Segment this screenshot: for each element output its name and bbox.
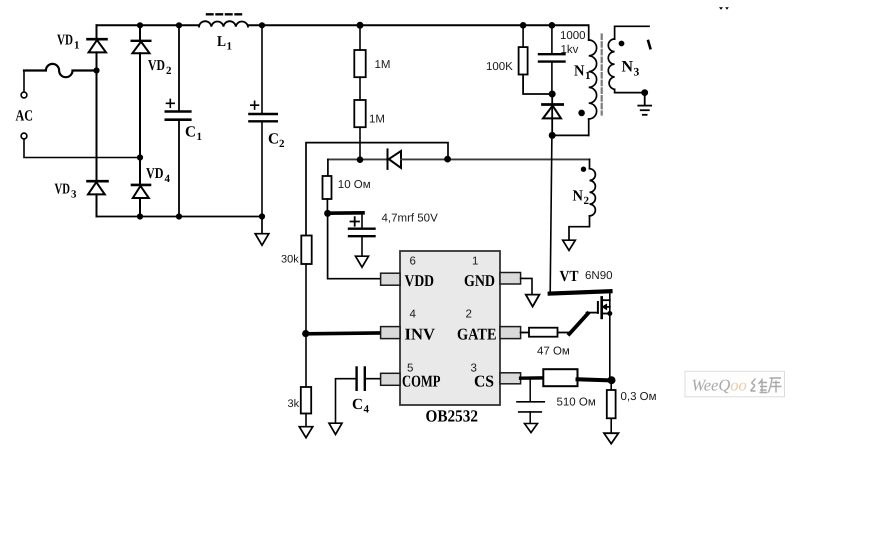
wire thick to C-4.7 (328, 211, 363, 215)
diode VD2 (132, 41, 151, 158)
svg-text:1M: 1M (369, 114, 385, 126)
resistor R-47ohm (529, 328, 558, 337)
wire VD2 branch upper (139, 25, 141, 40)
node 100K-cap (549, 91, 556, 98)
ground C-4.7 (356, 256, 369, 267)
svg-text:3: 3 (634, 67, 640, 79)
winding N3 (608, 26, 649, 92)
fuse (24, 64, 97, 77)
wire mid y159 right to N2 (401, 158, 590, 160)
wire upper-loop y142 (306, 143, 448, 234)
resistor R-510ohm (543, 369, 577, 386)
pin 5 COMP (381, 373, 400, 385)
resistor R-1M-b (354, 100, 365, 160)
svg-text:GND: GND (464, 271, 495, 290)
svg-text:N: N (622, 59, 634, 76)
wire CS thick (521, 376, 544, 380)
ground N3 earth (638, 93, 651, 115)
node top-C1 (176, 22, 182, 28)
wire mid y159 left (328, 158, 387, 160)
node N3 phase dot (619, 41, 625, 47)
node N2 phase dot (581, 167, 586, 172)
svg-text:1: 1 (585, 70, 591, 82)
svg-text:CS: CS (474, 372, 494, 391)
wire 47ohm to gate diag (558, 313, 598, 334)
node N3-ground (641, 89, 648, 96)
wire thick INV (306, 331, 381, 335)
svg-text:4,7mrf 50V: 4,7mrf 50V (382, 213, 439, 225)
node bottom-VD4 (137, 213, 143, 219)
wire AC top lead (23, 71, 25, 93)
svg-text:6N90: 6N90 (585, 270, 613, 282)
resistor R-0.3ohm (607, 380, 616, 433)
diode VD4 (132, 158, 150, 217)
svg-text:510 Ом: 510 Ом (557, 397, 596, 409)
winding N1 (589, 25, 597, 135)
node INV-divider (302, 330, 309, 337)
svg-text:GATE: GATE (457, 325, 497, 344)
pin 3 CS (500, 373, 521, 384)
node top-HVcap (549, 22, 556, 29)
wire VD1 branch upper (96, 25, 98, 39)
svg-text:1M: 1M (375, 59, 391, 71)
wire top rail right (248, 24, 589, 26)
inductor L1 (199, 21, 248, 26)
svg-text:4: 4 (410, 309, 417, 321)
svg-text:2: 2 (166, 65, 172, 77)
node B AC-VD2-VD4 (137, 154, 143, 160)
svg-text:VD: VD (148, 58, 165, 74)
op IC U1 OB2532 body (400, 251, 500, 405)
node top-VD2 (137, 22, 143, 28)
svg-text:30k: 30k (281, 254, 299, 266)
capacitor C4 (336, 368, 381, 424)
svg-text:COMP: COMP (402, 372, 441, 391)
diode VD3 (88, 181, 108, 216)
svg-text:6: 6 (410, 256, 416, 268)
resistor R-100K (519, 25, 553, 94)
capacitor C-CS (517, 378, 544, 423)
svg-text:2: 2 (466, 309, 472, 321)
svg-text:VT: VT (560, 268, 580, 285)
svg-text:N: N (573, 188, 584, 205)
svg-text:OB2532: OB2532 (426, 407, 479, 426)
pin 1 GND (500, 273, 521, 285)
svg-text:4: 4 (364, 404, 370, 416)
capacitor C-4.7mkf (349, 213, 375, 256)
diode D-clamp zener (543, 94, 563, 135)
wire V fragment (648, 41, 650, 48)
node N1 phase dot (578, 110, 585, 117)
svg-text:0,3 Ом: 0,3 Ом (621, 391, 657, 403)
svg-text:1000: 1000 (560, 30, 586, 42)
wire VDD feed (328, 213, 381, 278)
resistor R-30k (301, 236, 311, 388)
node 1M-bottom (357, 156, 364, 163)
capacitor C2 (249, 25, 276, 216)
node diode-right (444, 156, 451, 163)
node bottom-C1 (176, 213, 182, 219)
ground N2 (563, 240, 576, 250)
svg-text:L: L (217, 34, 226, 50)
svg-text:VD: VD (57, 33, 73, 49)
wire VD3 branch (96, 71, 98, 182)
diode D-feedback (388, 149, 402, 169)
wire transformer to drain (550, 135, 552, 292)
winding N2 (569, 159, 595, 240)
node source-CS (608, 376, 616, 384)
svg-text:AC: AC (16, 108, 34, 125)
pin 2 GATE (500, 327, 521, 339)
transistor Q1 6N90 mosfet (598, 293, 612, 381)
ground R-0.3 (604, 433, 618, 444)
wire GATE to 47ohm (521, 332, 529, 334)
ground C-CS (525, 424, 538, 433)
svg-text:2: 2 (279, 138, 285, 150)
ground R-3k (299, 427, 312, 438)
svg-text:100K: 100K (486, 61, 513, 73)
wire N1 bottom (552, 134, 589, 136)
resistor R-3k (301, 387, 311, 427)
core dashed (601, 35, 603, 115)
ground GND-pin (526, 295, 540, 307)
svg-text:VD: VD (55, 182, 71, 198)
node top-C2 (259, 22, 265, 28)
svg-text:1: 1 (472, 256, 478, 268)
svg-text:VD: VD (146, 166, 164, 182)
svg-text:10 Ом: 10 Ом (338, 179, 371, 191)
svg-text:N: N (574, 63, 585, 80)
svg-text:3k: 3k (288, 398, 300, 410)
marks top-right (719, 7, 729, 10)
node A fuse-VD1-VD3 (93, 67, 99, 73)
svg-text:47 Ом: 47 Ом (537, 346, 570, 358)
node top-100K (520, 22, 527, 29)
svg-text:1: 1 (74, 40, 80, 52)
svg-text:C: C (268, 131, 279, 148)
terminal AC bottom (21, 133, 27, 139)
resistor R-1M-a (354, 25, 365, 100)
node bottom-C2 (259, 213, 265, 219)
node top-1M (357, 22, 364, 29)
resistor R-10ohm (323, 159, 332, 213)
capacitor C-1000-1kv (539, 25, 565, 94)
capacitor C1 (166, 25, 191, 216)
svg-text:1: 1 (227, 41, 233, 53)
svg-text:4: 4 (165, 173, 171, 185)
svg-text:1: 1 (197, 131, 203, 143)
svg-text:C: C (185, 124, 196, 141)
ground C4 (329, 423, 342, 434)
node snubber-N1-drain (549, 132, 556, 139)
svg-text:VDD: VDD (405, 271, 435, 290)
wire thick drain bar (550, 291, 611, 293)
svg-text:C: C (352, 396, 363, 413)
svg-text:WeeQoo: WeeQoo (692, 376, 747, 395)
svg-text:3: 3 (71, 189, 77, 201)
node 10ohm-bottom (324, 210, 331, 217)
diode VD1 (88, 39, 107, 70)
wire 510ohm to node thick (578, 379, 612, 380)
terminal AC top (21, 92, 27, 98)
wire bottom rail (97, 216, 263, 218)
svg-text:2: 2 (584, 195, 590, 207)
wire top rail left (97, 24, 200, 26)
ground main-rail (255, 217, 269, 246)
wire GND pin to ground (521, 278, 532, 293)
watermark WeeQoo (685, 371, 785, 397)
svg-text:1kv: 1kv (561, 44, 579, 56)
pin 6 VDD (381, 273, 400, 285)
pin 4 INV (381, 327, 400, 339)
svg-text:INV: INV (405, 325, 436, 344)
wire AC bottom lead (24, 139, 140, 158)
